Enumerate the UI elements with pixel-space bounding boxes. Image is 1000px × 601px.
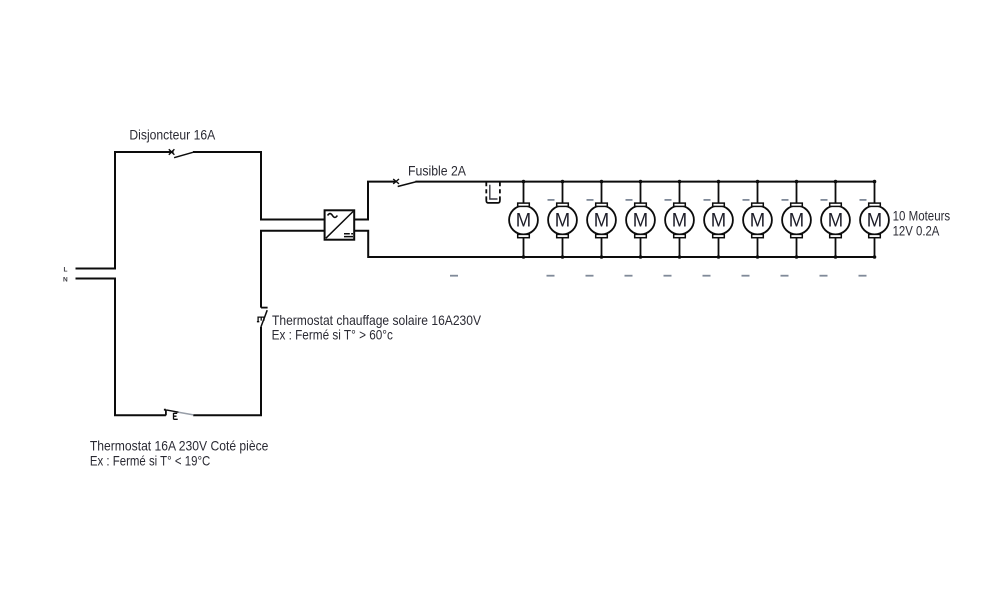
wire: motor M4 top lead [640,182,642,204]
wire: motor M1 bottom lead [523,238,525,257]
svg-text:M: M [828,211,843,232]
wire: motor M4 bottom lead [640,238,642,257]
svg-text:Ex : Fermé si T° < 19°C: Ex : Fermé si T° < 19°C [90,452,210,468]
thermal sensor mark of room thermostat S1 [174,413,178,420]
motor M7 (12V 0.2A) [743,203,772,238]
room thermostat S1 fixed contact tick [164,410,166,416]
switch blade of disjoncteur Q1 [174,152,193,158]
motor M8 (12V 0.2A) [782,203,811,238]
wire: L lead, left riser up, top wire to disjoncteur [76,152,174,269]
svg-text:Fusible 2A: Fusible 2A [408,163,467,179]
motor M3 (12V 0.2A) [587,203,616,238]
wire: motor M10 bottom lead [874,238,876,257]
motor M4 (12V 0.2A) [626,203,655,238]
junction dot on bottom bus at motor M10 [873,255,877,259]
wire: top supply bus (+12V) to motors [415,181,874,183]
wire: converter DC- output down to bottom return bus of motors [354,231,874,257]
wire: converter DC+ output up to fuse line [354,182,395,220]
svg-text:Disjoncteur 16A: Disjoncteur 16A [129,127,215,143]
motor M10 (12V 0.2A) [860,203,889,238]
svg-text:M: M [633,211,648,232]
svg-text:M: M [516,211,531,232]
switch blade of solar thermostat S2 [261,310,267,327]
breaker contact cross (X) of disjoncteur [169,149,175,154]
svg-text:M: M [672,211,687,232]
junction dot on bottom bus at motor M7 [756,255,760,259]
svg-text:M: M [867,211,882,232]
svg-text:12V 0.2A: 12V 0.2A [893,222,940,238]
motor M6 (12V 0.2A) [704,203,733,238]
junction dot on top bus at motor M3 [600,180,604,184]
motor M1 (12V 0.2A) [509,203,538,238]
motor M2 (12V 0.2A) [548,203,577,238]
wire: motor M2 bottom lead [562,238,564,257]
label: Thermostat chauffage solaire 16A230V / Ex : Fermé si T° &gt; 60°c [272,312,482,342]
fuse contact cross (X) of fusible [393,179,399,184]
label: 10 Moteurs 12V 0.2A [893,208,951,239]
wire: motor M9 top lead [835,182,837,204]
motor M9 (12V 0.2A) [821,203,850,238]
junction dot on bottom bus at motor M9 [834,255,838,259]
label: Thermostat 16A 230V Coté pièce / Ex : Fermé si T° &lt; 19°C [90,437,269,468]
junction dot on top bus at motor M4 [639,180,643,184]
wire: disjoncteur to AC input of converter (via right riser) [193,152,325,220]
junction dot on top bus at motor M7 [756,180,760,184]
wire: converter AC return down to solar thermostat [261,231,325,308]
fuse holder F1 (dashed cartridge) [486,182,500,203]
polarity dash marks below bottom bus [450,275,867,277]
svg-text:M: M [711,211,726,232]
junction dot on bottom bus at motor M1 [522,255,526,259]
motor M5 (12V 0.2A) [665,203,694,238]
wire: motor M7 top lead [757,182,759,204]
junction dot on top bus at motor M2 [561,180,565,184]
wire: motor M8 top lead [796,182,798,204]
junction dot on top bus at motor M6 [717,180,721,184]
svg-text:M: M [594,211,609,232]
wire: motor M3 top lead [601,182,603,204]
junction dot on bottom bus at motor M5 [678,255,682,259]
wire: motor M5 top lead [679,182,681,204]
AC/DC converter U1 [325,210,355,239]
wire: motor M8 bottom lead [796,238,798,257]
junction dot on bottom bus at motor M8 [795,255,799,259]
junction dot on bottom bus at motor M4 [639,255,643,259]
wire: motor M2 top lead [562,182,564,204]
svg-text:M: M [789,211,804,232]
wire: motor M1 top lead [523,182,525,204]
switch blade of room thermostat S1 (light section) [179,412,194,415]
wire: bottom wire back to N lead [76,279,166,416]
svg-text:L: L [64,266,68,273]
thermal sensor mark of solar thermostat S2 [257,317,265,322]
svg-text:10 Moteurs: 10 Moteurs [893,208,951,224]
switch blade of room thermostat S1 (dark section) [166,410,178,412]
junction dot on top bus at motor M5 [678,180,682,184]
wire: motor M9 bottom lead [835,238,837,257]
wire: motor M7 bottom lead [757,238,759,257]
svg-text:Thermostat 16A 230V Coté pièce: Thermostat 16A 230V Coté pièce [90,437,269,453]
svg-text:N: N [63,277,68,284]
junction dot on top bus at motor M8 [795,180,799,184]
junction dot on top bus at motor M1 [522,180,526,184]
wire: motor M5 bottom lead [679,238,681,257]
wire: motor M6 bottom lead [718,238,720,257]
switch blade of fusible F1 [398,182,416,187]
wire: motor M10 top lead [874,182,876,204]
svg-text:Ex : Fermé si T° > 60°c: Ex : Fermé si T° > 60°c [272,326,393,342]
polarity dash marks above motors [548,199,867,201]
svg-text:M: M [750,211,765,232]
junction dot on top bus at motor M9 [834,180,838,184]
junction dot on bottom bus at motor M6 [717,255,721,259]
svg-text:M: M [555,211,570,232]
wire: solar thermostat down and bottom wire to room thermostat [193,327,261,415]
solar thermostat S2 fixed contact tick [261,307,268,309]
junction dot on bottom bus at motor M3 [600,255,604,259]
wire: motor M6 top lead [718,182,720,204]
wire: motor M3 bottom lead [601,238,603,257]
junction dot on bottom bus at motor M2 [561,255,565,259]
junction dot on top bus at motor M10 [873,180,877,184]
